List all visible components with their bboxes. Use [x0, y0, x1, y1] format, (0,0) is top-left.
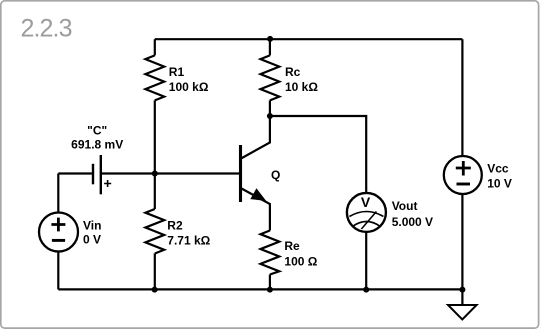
svg-text:V: V [361, 194, 371, 210]
svg-text:Re: Re [284, 239, 300, 253]
svg-text:10 V: 10 V [487, 176, 512, 190]
svg-text:Rc: Rc [285, 65, 301, 79]
svg-text:0 V: 0 V [83, 233, 101, 247]
svg-text:7.71 kΩ: 7.71 kΩ [167, 234, 210, 248]
svg-text:691.8 mV: 691.8 mV [71, 138, 123, 152]
svg-text:R2: R2 [167, 218, 183, 232]
svg-text:Q: Q [271, 168, 280, 182]
svg-text:10 kΩ: 10 kΩ [285, 80, 318, 94]
svg-text:Vout: Vout [392, 199, 418, 213]
svg-text:Vcc: Vcc [487, 161, 509, 175]
svg-text:R1: R1 [169, 65, 185, 79]
svg-text:"C": "C" [87, 123, 107, 137]
svg-text:2.2.3: 2.2.3 [21, 14, 72, 42]
svg-text:100 kΩ: 100 kΩ [169, 80, 209, 94]
svg-text:Vin: Vin [83, 219, 101, 233]
svg-text:5.000 V: 5.000 V [392, 215, 433, 229]
svg-text:100 Ω: 100 Ω [284, 254, 317, 268]
